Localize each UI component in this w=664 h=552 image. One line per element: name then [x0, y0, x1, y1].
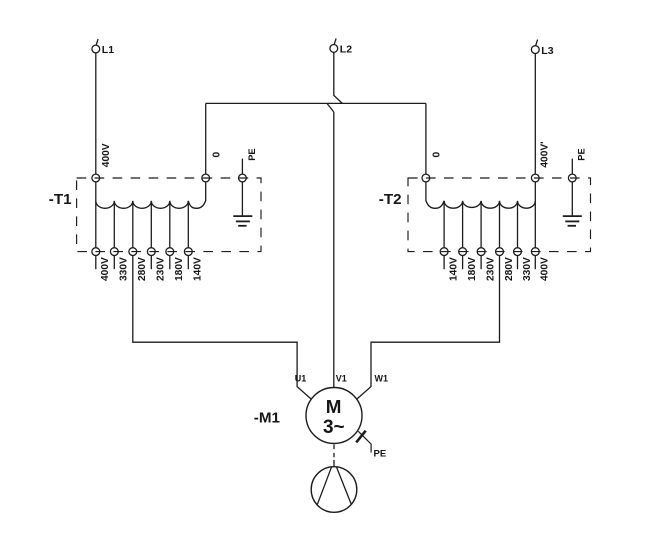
T1 bottom terminal 230V [147, 248, 155, 256]
T1 stub 140V [187, 256, 189, 270]
T1 PE stub above [241, 159, 243, 175]
svg-text:140V: 140V [193, 257, 204, 281]
svg-text:230V: 230V [486, 257, 497, 281]
T2 winding [426, 182, 535, 208]
T2 PE stub above [571, 159, 573, 175]
T1 top terminal 0 [202, 174, 210, 182]
wire bus left drop to T1 0 terminal [205, 103, 207, 174]
T2 stub 180V [462, 256, 464, 270]
T2 PE terminal [568, 174, 576, 182]
T2 bottom terminal 180V [459, 248, 467, 256]
T1 winding left vertical (400V through to bottom) [95, 182, 97, 248]
terminal L2 [330, 38, 338, 52]
T1 stub 230V [150, 256, 152, 270]
wire L1 to T1 400V terminal [95, 53, 97, 174]
wire T1 280V tap to motor U1 [133, 256, 311, 399]
T2 bottom terminal 230V [477, 248, 485, 256]
wire L2 lower jog [327, 103, 334, 112]
T1 tap wire 140V [187, 201, 189, 248]
T1 bottom terminal 140V [184, 248, 192, 256]
T1 tap wire 330V [113, 201, 115, 248]
svg-text:400V: 400V [100, 257, 111, 281]
T1 bottom terminal 400V [92, 248, 100, 256]
T2 tap wire 140V [443, 201, 445, 248]
svg-text:400V': 400V' [540, 141, 551, 167]
svg-text:U1: U1 [295, 373, 307, 383]
svg-text:230V: 230V [156, 257, 167, 281]
T1 stub 400V [95, 256, 97, 270]
shaft link dash 1 [333, 445, 335, 450]
svg-text:V1: V1 [336, 373, 347, 383]
T2 tap wire 330V [517, 201, 519, 248]
svg-text:M: M [326, 396, 342, 417]
svg-text:-T2: -T2 [379, 191, 402, 208]
pump circle [311, 467, 357, 513]
shaft link dash 3 [333, 460, 335, 466]
terminal L3 [531, 40, 539, 54]
T2 top terminal 400V [531, 174, 539, 182]
shaft link dash 2 [333, 453, 335, 457]
svg-text:L3: L3 [541, 45, 553, 57]
T2 stub 400V [534, 256, 536, 270]
T2 tap wire 280V [499, 201, 501, 248]
T2 stub 140V [443, 256, 445, 270]
T1 bottom terminal 330V [110, 248, 118, 256]
T2 tap wire 180V [462, 201, 464, 248]
svg-text:330V: 330V [522, 257, 533, 281]
T1 tap wire 180V [169, 201, 171, 248]
wire L2 upper segment with jog to bus [334, 52, 343, 103]
T1 bottom terminal 280V [129, 248, 137, 256]
T2 bottom terminal 280V [496, 248, 504, 256]
svg-text:L2: L2 [340, 44, 352, 56]
T1 stub 180V [169, 256, 171, 270]
svg-text:140V: 140V [449, 257, 460, 281]
svg-text:330V: 330V [119, 257, 130, 281]
motor PE tick [356, 431, 366, 443]
T2 bottom terminal 140V [440, 248, 448, 256]
wire L3 to T2 400V terminal [534, 54, 536, 175]
svg-text:-M1: -M1 [254, 410, 281, 427]
T1 PE terminal [239, 174, 247, 182]
wire bus right drop to T2 0 terminal [425, 103, 427, 174]
T1 top terminal 400V [92, 174, 100, 182]
T2 bottom terminal 400V [531, 248, 539, 256]
T1 tap wire 280V [132, 201, 134, 248]
T2 stub 330V [517, 256, 519, 270]
svg-text:-T1: -T1 [49, 191, 72, 208]
transformer T2 dashed enclosure [408, 178, 591, 252]
svg-text:400V: 400V [101, 143, 112, 167]
wire bus 0-0 horizontal [206, 102, 426, 104]
T1 ground [233, 216, 252, 226]
svg-text:400V: 400V [540, 257, 551, 281]
transformer T1 dashed enclosure [77, 178, 261, 252]
svg-text:L1: L1 [102, 44, 114, 56]
motor PE pigtail wire [358, 431, 371, 452]
svg-text:0: 0 [432, 152, 443, 158]
svg-text:PE: PE [247, 148, 257, 160]
pump vane left [317, 467, 331, 505]
T2 tap wire 230V [480, 201, 482, 248]
T1 tap wire 230V [150, 201, 152, 248]
svg-text:PE: PE [374, 448, 387, 459]
svg-text:280V: 280V [137, 257, 148, 281]
T2 PE wire down [571, 182, 573, 216]
svg-text:PE: PE [577, 148, 587, 160]
terminal L1 [92, 39, 100, 53]
svg-text:3~: 3~ [323, 417, 345, 438]
svg-text:180V: 180V [467, 257, 478, 281]
T2 ground [563, 216, 582, 226]
svg-text:W1: W1 [375, 373, 389, 383]
wire L2 to motor V1 [333, 112, 335, 388]
T1 bottom terminal 180V [166, 248, 174, 256]
T1 PE wire down [241, 182, 243, 216]
svg-text:180V: 180V [174, 257, 185, 281]
wire T2 280V tap to motor W1 [357, 256, 499, 399]
T1 winding [96, 182, 206, 208]
T2 winding right vertical (400V through to bottom) [534, 182, 536, 248]
T2 top terminal 0 [422, 174, 430, 182]
svg-text:280V: 280V [504, 257, 515, 281]
pump vane right [336, 467, 351, 504]
T2 stub 230V [480, 256, 482, 270]
T2 bottom terminal 330V [514, 248, 522, 256]
T1 stub 330V [113, 256, 115, 270]
svg-text:0: 0 [211, 152, 222, 158]
motor M1 circle [306, 388, 362, 444]
